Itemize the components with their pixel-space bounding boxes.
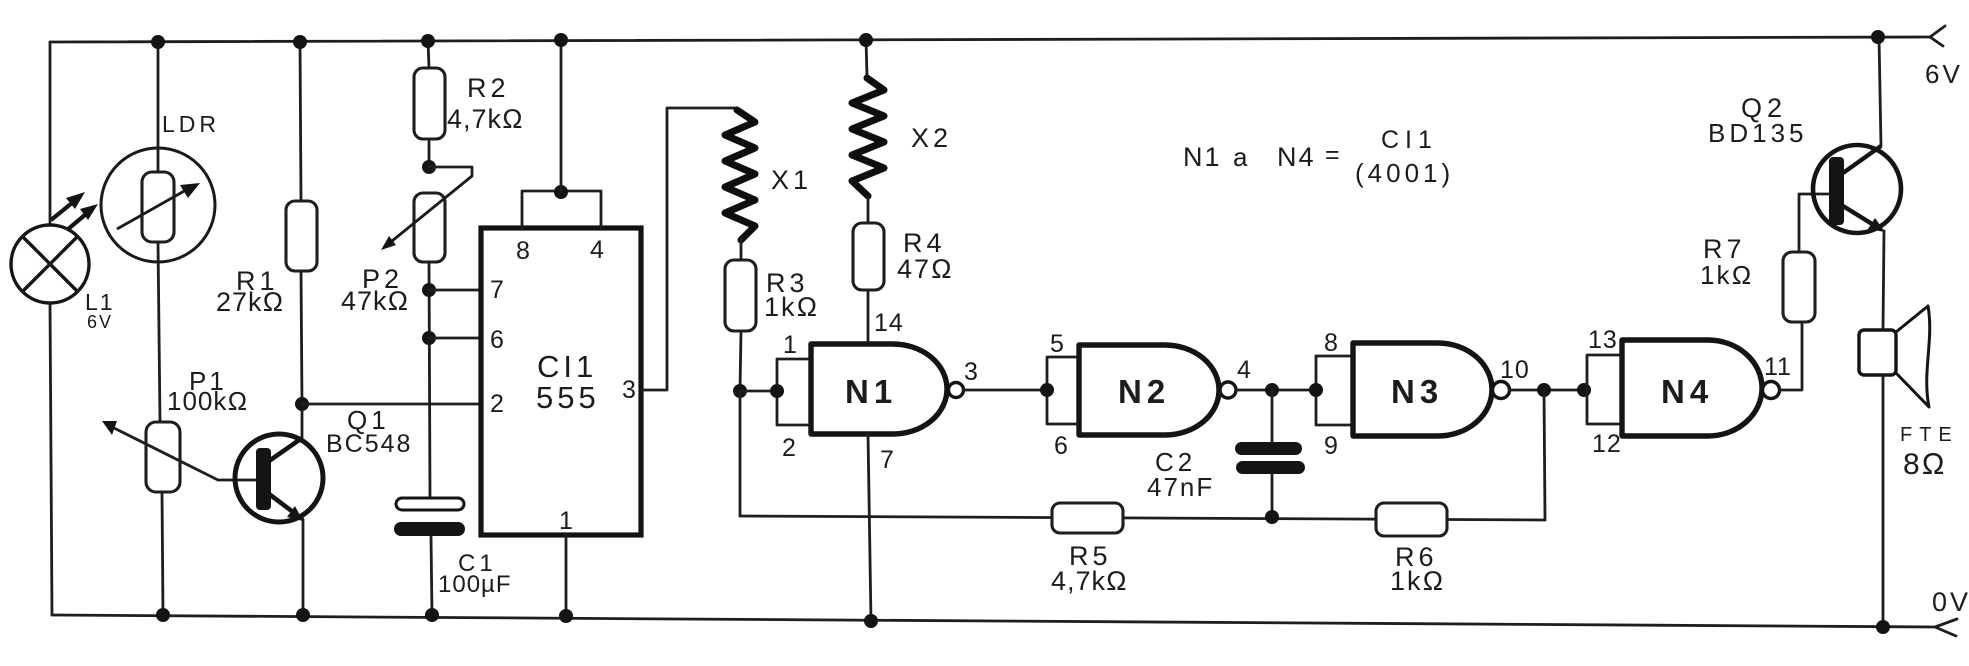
- svg-text:N1: N1: [1183, 142, 1222, 172]
- NOR gate N1 input bracket: [777, 359, 811, 425]
- resistor R6: [1376, 503, 1447, 536]
- node pin6 junction: [422, 331, 436, 345]
- N4 output bubble: [1763, 382, 1780, 399]
- svg-text:LDR: LDR: [162, 111, 220, 137]
- node bottom rail P1: [156, 608, 170, 622]
- label N1 a N4 equation: [1183, 126, 1454, 188]
- thermistor X2: [852, 78, 884, 196]
- wire N4 out to R7: [1780, 322, 1802, 390]
- svg-text:1: 1: [559, 507, 574, 535]
- resistor R2: [414, 41, 445, 167]
- node N2 bracket junction: [1040, 383, 1054, 397]
- node bottom rail Q1: [296, 608, 310, 622]
- N3 output bubble: [1493, 382, 1510, 399]
- svg-text:3: 3: [622, 376, 637, 404]
- svg-text:CI1: CI1: [537, 349, 597, 384]
- N2 output bubble: [1220, 382, 1236, 398]
- NOR gate N4: [1622, 340, 1762, 436]
- svg-text:1: 1: [783, 331, 798, 359]
- node top rail LDR: [151, 35, 165, 49]
- svg-text:13: 13: [1588, 326, 1618, 354]
- svg-text:3: 3: [964, 358, 979, 386]
- svg-text:7: 7: [880, 446, 895, 474]
- svg-text:R2: R2: [467, 73, 510, 103]
- resistor R4: [853, 196, 884, 344]
- node C2 bottom junction: [1265, 510, 1279, 524]
- node top rail R1: [293, 35, 307, 49]
- svg-text:4,7kΩ: 4,7kΩ: [447, 104, 524, 134]
- wire 555 pin 7: [429, 289, 481, 292]
- wire 0V bottom rail: [52, 615, 1935, 627]
- svg-text:100kΩ: 100kΩ: [167, 386, 248, 416]
- wire 555 pin 6: [429, 337, 481, 340]
- wire 555 pin 1 to ground: [565, 535, 568, 616]
- resistor R5: [1052, 503, 1123, 533]
- svg-text:FTE: FTE: [1900, 424, 1959, 446]
- wire X2 top lead: [866, 40, 867, 76]
- node pin7 junction: [422, 283, 436, 297]
- node N3 bracket junction: [1309, 383, 1323, 397]
- 6V supply arrow: [1930, 26, 1945, 46]
- wire junction to N1 bracket: [740, 390, 777, 393]
- svg-text:4,7kΩ: 4,7kΩ: [1051, 566, 1128, 596]
- lamp L1: [11, 225, 89, 303]
- wire 555 pin 2: [302, 403, 481, 406]
- svg-text:12: 12: [1592, 430, 1622, 458]
- wire lamp top lead: [49, 42, 52, 226]
- N1 output bubble: [949, 383, 964, 398]
- svg-text:=: =: [1325, 141, 1340, 169]
- svg-text:X1: X1: [771, 165, 812, 195]
- svg-text:100µF: 100µF: [438, 571, 512, 598]
- svg-text:5: 5: [1050, 330, 1065, 358]
- node bottom rail N1 pin7: [864, 614, 878, 628]
- 0V supply arrow: [1935, 619, 1957, 636]
- svg-text:(4001): (4001): [1355, 158, 1454, 188]
- svg-text:4: 4: [590, 236, 605, 264]
- svg-text:9: 9: [1324, 432, 1339, 460]
- svg-text:8Ω: 8Ω: [1903, 448, 1947, 481]
- NOR gate N2: [1079, 345, 1219, 435]
- node R2 P2 junction: [422, 160, 436, 174]
- svg-text:0V: 0V: [1932, 587, 1969, 617]
- svg-text:47nF: 47nF: [1147, 472, 1214, 502]
- transistor Q2: [1813, 37, 1901, 330]
- NOR gate N3: [1353, 343, 1492, 436]
- resistor R1: [286, 42, 317, 404]
- svg-text:8: 8: [516, 237, 531, 265]
- resistor R3: [725, 240, 756, 391]
- svg-text:47Ω: 47Ω: [897, 254, 954, 284]
- node bottom rail 555 pin1: [559, 609, 573, 623]
- node bottom rail C1: [425, 608, 439, 622]
- node feedback junction: [1537, 383, 1551, 397]
- wire N2 out to N3 in: [1236, 389, 1316, 392]
- node top rail 555: [554, 33, 568, 47]
- svg-text:4: 4: [1237, 356, 1252, 384]
- wire N3 out to N4 in: [1510, 389, 1587, 392]
- node bottom rail speaker: [1876, 620, 1890, 634]
- wire feedback up to N3 output: [1544, 390, 1545, 520]
- svg-text:BC548: BC548: [326, 430, 412, 458]
- wire N1 out to N2 in: [964, 389, 1047, 392]
- node notch junction: [554, 185, 568, 199]
- wire feedback down from junction: [739, 391, 742, 516]
- svg-text:N4: N4: [1277, 142, 1316, 172]
- svg-text:6V: 6V: [87, 312, 113, 332]
- svg-text:X2: X2: [911, 123, 952, 153]
- svg-text:47kΩ: 47kΩ: [341, 286, 409, 316]
- svg-text:555: 555: [536, 380, 600, 415]
- node top rail R2: [421, 34, 435, 48]
- NOR gate N2 input bracket: [1047, 357, 1079, 424]
- svg-text:7: 7: [490, 276, 505, 304]
- resistor R7: [1783, 194, 1829, 322]
- wire lamp bottom lead: [50, 303, 52, 615]
- svg-text:14: 14: [874, 309, 904, 337]
- svg-text:a: a: [1233, 142, 1248, 172]
- wire 6V top rail: [50, 37, 1930, 42]
- svg-text:1kΩ: 1kΩ: [764, 292, 819, 322]
- transistor Q1: [235, 404, 323, 615]
- wire pins 4-8 to rail: [560, 41, 563, 191]
- node R1 pin2 collector junction: [295, 397, 309, 411]
- svg-text:1kΩ: 1kΩ: [1390, 566, 1445, 596]
- svg-text:6: 6: [490, 326, 505, 354]
- svg-text:6: 6: [1054, 432, 1069, 460]
- wire P1 wiper to Q1 base: [102, 421, 256, 480]
- svg-text:27kΩ: 27kΩ: [216, 287, 284, 317]
- svg-text:2: 2: [782, 434, 797, 462]
- capacitor C1: [394, 498, 465, 615]
- node N1 bracket junction: [770, 384, 784, 398]
- light ray arrow 2: [67, 204, 98, 230]
- wire N1 pin 7 to ground: [868, 434, 871, 621]
- svg-text:2: 2: [490, 390, 505, 418]
- node N4 bracket junction: [1577, 383, 1591, 397]
- svg-text:6V: 6V: [1925, 59, 1963, 89]
- node R3 N1 input junction: [733, 384, 747, 398]
- thermistor X1: [725, 110, 755, 240]
- potentiometer P1: [146, 422, 180, 615]
- svg-text:N4: N4: [1661, 373, 1713, 410]
- wire pin 3 to X1: [641, 108, 736, 390]
- potentiometer P2: [381, 167, 472, 498]
- wire feedback line R5 R6: [740, 516, 1545, 520]
- NOR gate N4 input bracket: [1587, 355, 1622, 424]
- capacitor C2: [1235, 390, 1305, 517]
- speaker FTE: [1859, 306, 1930, 627]
- NOR gate N1: [811, 344, 947, 434]
- svg-text:1kΩ: 1kΩ: [1700, 260, 1753, 290]
- LDR photoresistor: [101, 42, 215, 422]
- svg-text:11: 11: [1764, 353, 1792, 381]
- IC CI1 555: [481, 191, 641, 535]
- svg-text:N2: N2: [1118, 373, 1170, 410]
- svg-text:N3: N3: [1391, 373, 1443, 410]
- svg-text:CI1: CI1: [1381, 126, 1438, 154]
- light ray arrow 1: [51, 192, 85, 220]
- svg-text:10: 10: [1500, 356, 1530, 384]
- svg-text:N1: N1: [845, 373, 897, 410]
- node C2 top junction: [1265, 383, 1279, 397]
- svg-text:8: 8: [1324, 329, 1339, 357]
- node top rail Q2: [1871, 30, 1885, 44]
- NOR gate N3 input bracket: [1316, 356, 1353, 425]
- node top rail X2: [859, 33, 873, 47]
- svg-text:BD135: BD135: [1708, 118, 1808, 148]
